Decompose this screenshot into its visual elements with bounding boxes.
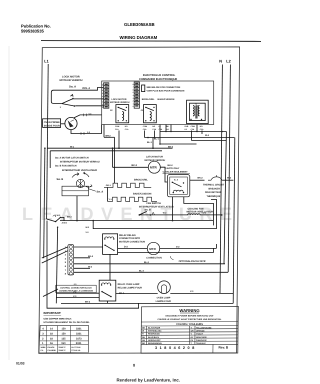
relay K1 bbox=[116, 105, 129, 123]
part number row bbox=[155, 346, 229, 350]
wire BL-1 row bbox=[160, 143, 197, 145]
wire sw.A to connector bbox=[74, 98, 104, 100]
svg-text:3321: 3321 bbox=[76, 333, 82, 336]
connector feed diagonals bbox=[42, 247, 68, 258]
wire drop to broil element bbox=[114, 137, 116, 183]
svg-text:OVEN LAMP: OVEN LAMP bbox=[157, 296, 171, 299]
svg-text:P-2: P-2 bbox=[87, 131, 90, 134]
svg-text:GLEB3058ASB: GLEB3058ASB bbox=[124, 22, 155, 27]
page edge scan line bbox=[8, 46, 10, 360]
relay K1 label bbox=[110, 98, 175, 104]
relay K3 double-line transformer bbox=[187, 100, 209, 123]
wire left rail 2 bbox=[44, 148, 45, 258]
svg-text:Sw. B FAN SWITCH: Sw. B FAN SWITCH bbox=[55, 165, 77, 168]
svg-text:BL-2: BL-2 bbox=[139, 270, 145, 273]
relay MTR connection box bbox=[103, 234, 118, 255]
svg-text:1: 1 bbox=[133, 102, 134, 105]
wire lock assembly drop left bbox=[172, 197, 174, 221]
svg-text:STYLE UL: STYLE UL bbox=[71, 349, 81, 352]
header rule bbox=[41, 40, 261, 43]
svg-text:4: 4 bbox=[102, 95, 103, 98]
svg-text:INTERRUPTEUR VENTILATEUR: INTERRUPTEUR VENTILATEUR bbox=[62, 169, 97, 172]
wire L2 rail bbox=[228, 65, 230, 273]
svg-text:Rendered by LeadVenture, Inc.: Rendered by LeadVenture, Inc. bbox=[117, 378, 181, 383]
svg-text:0: 0 bbox=[102, 106, 103, 109]
wire drop relay K1 COM bbox=[118, 131, 120, 149]
relay oven lamp bbox=[99, 280, 116, 301]
svg-text:THERMAL CIRCUIT: THERMAL CIRCUIT bbox=[203, 184, 225, 187]
cam base bbox=[62, 186, 89, 196]
fan switch row bbox=[139, 214, 222, 215]
cavity note bbox=[163, 164, 189, 174]
svg-text:2: 2 bbox=[102, 100, 103, 103]
wire N rail bbox=[220, 65, 222, 294]
latch motor label bbox=[132, 155, 166, 166]
relay K2 bbox=[144, 105, 157, 123]
border frame bbox=[39, 47, 240, 354]
important note bbox=[44, 311, 90, 324]
svg-text:N-1: N-1 bbox=[166, 128, 169, 131]
svg-text:CONNECTION: CONNECTION bbox=[146, 257, 162, 260]
svg-text:CONTROL CONNECTOR BLOCK: CONTROL CONNECTOR BLOCK bbox=[60, 286, 92, 289]
svg-text:WIRE: WIRE bbox=[41, 346, 47, 349]
wire bottom bk-2 bbox=[61, 302, 233, 304]
svg-text:CONNECTION MTR: CONNECTION MTR bbox=[119, 237, 140, 240]
oven lamp bbox=[158, 281, 171, 294]
svg-text:1: 1 bbox=[102, 103, 103, 106]
wire relay to mtr conn bbox=[118, 247, 148, 249]
svg-text:OR-1: OR-1 bbox=[106, 184, 112, 187]
wire lower fan row bbox=[60, 220, 213, 222]
svg-text:SEE BELOW FOR CONNECTION: SEE BELOW FOR CONNECTION bbox=[147, 86, 181, 89]
svg-text:VIOL-2: VIOL-2 bbox=[82, 87, 91, 90]
svg-text:IMPORTANT:: IMPORTANT: bbox=[44, 311, 62, 315]
svg-text:OVEN PROBE: OVEN PROBE bbox=[44, 121, 60, 124]
svg-text:MOTEUR VERROU: MOTEUR VERROU bbox=[110, 101, 130, 104]
svg-text:8: 8 bbox=[102, 84, 103, 87]
header: publication number bbox=[21, 22, 158, 40]
svg-text:Sw. A: Sw. A bbox=[97, 191, 104, 194]
svg-text:VOIR PLUS BAS POUR CONNEXION: VOIR PLUS BAS POUR CONNEXION bbox=[147, 89, 185, 92]
svg-text:PINK/ROSE: PINK/ROSE bbox=[196, 339, 207, 342]
svg-text:YELLOW/JAUNE: YELLOW/JAUNE bbox=[196, 327, 212, 330]
svg-text:DISJONCTEUR: DISJONCTEUR bbox=[205, 191, 222, 194]
cam rotary symbol bbox=[76, 179, 84, 187]
optional label bbox=[170, 256, 173, 259]
svg-text:8: 8 bbox=[133, 83, 134, 86]
wire BR-2 row bbox=[104, 136, 115, 138]
wire N return row bbox=[160, 131, 226, 133]
svg-text:CALIBRE: CALIBRE bbox=[47, 349, 56, 352]
wire W-1 row bbox=[48, 147, 173, 149]
svg-text:318046208: 318046208 bbox=[155, 346, 197, 350]
wires into oven lamp relay bbox=[56, 292, 99, 294]
wire viol-2 bbox=[92, 88, 103, 91]
wire door sw lower contact rail bbox=[56, 228, 57, 304]
svg-text:WIRING DIAGRAM: WIRING DIAGRAM bbox=[120, 35, 158, 40]
cooling fan text bbox=[187, 207, 214, 213]
svg-text:BROIL/GRIL: BROIL/GRIL bbox=[142, 98, 155, 101]
svg-text:BLACK/NOIR: BLACK/NOIR bbox=[148, 327, 161, 330]
wire mtr to lock assembly bbox=[160, 167, 167, 182]
svg-text:BK-2: BK-2 bbox=[85, 301, 91, 304]
svg-text:DISCONNECT POWER BEFORE SERVIC: DISCONNECT POWER BEFORE SERVICING UNIT bbox=[165, 315, 214, 318]
lock motor Sw.A labels bbox=[60, 76, 91, 91]
svg-text:BROIL/GRIL: BROIL/GRIL bbox=[134, 178, 148, 181]
svg-text:BREAKER: BREAKER bbox=[209, 187, 221, 190]
oven probe sensor bbox=[65, 117, 77, 129]
svg-text:INTERRUPTEUR MOTEUR VERROU: INTERRUPTEUR MOTEUR VERROU bbox=[60, 160, 100, 163]
svg-text:150: 150 bbox=[62, 328, 67, 331]
svg-text:3: 3 bbox=[102, 98, 103, 101]
svg-text:BK-2: BK-2 bbox=[88, 255, 94, 258]
svg-text:COMMANDE ELECTRONIQUE: COMMANDE ELECTRONIQUE bbox=[139, 78, 177, 81]
svg-text:BLUE/BLEU: BLUE/BLEU bbox=[148, 336, 160, 339]
svg-text:5: 5 bbox=[133, 91, 134, 94]
svg-text:THERMIQUE: THERMIQUE bbox=[207, 195, 221, 198]
svg-text:8: 8 bbox=[133, 364, 135, 368]
svg-text:3321: 3321 bbox=[76, 328, 82, 331]
svg-text:CAVALIER SEULEMENT: CAVALIER SEULEMENT bbox=[163, 171, 189, 174]
svg-text:LAMPE-FOUR: LAMPE-FOUR bbox=[156, 300, 172, 303]
connector strip J2 bbox=[102, 83, 113, 112]
wire drop BR-2 from strip J2 bbox=[103, 125, 105, 138]
svg-text:K3: K3 bbox=[185, 128, 187, 131]
svg-text:VIOLET: VIOLET bbox=[196, 333, 204, 336]
svg-text:ORANGE: ORANGE bbox=[196, 330, 205, 333]
wire gauge table bbox=[39, 326, 89, 353]
svg-text:6: 6 bbox=[102, 89, 103, 92]
svg-text:BL-1: BL-1 bbox=[147, 141, 153, 144]
wire drop to latch motor bbox=[112, 148, 114, 167]
svg-text:5995383535: 5995383535 bbox=[21, 29, 44, 34]
svg-text:CAVITE ONLY: CAVITE ONLY bbox=[165, 167, 180, 170]
wire drop relay K3 DLB bbox=[196, 125, 198, 132]
svg-text:INTERRUPTEUR VENT LATEUR: INTERRUPTEUR VENT LATEUR bbox=[139, 205, 174, 208]
svg-text:RELAY-RELAIS: RELAY-RELAIS bbox=[119, 234, 136, 237]
wire probe V-3 lead bbox=[74, 115, 102, 118]
svg-text:TEMP C: TEMP C bbox=[58, 349, 66, 352]
wire drop relay K3 NO bbox=[201, 131, 203, 135]
svg-text:V-3: V-3 bbox=[89, 112, 92, 115]
svg-text:COM: COM bbox=[191, 125, 196, 128]
Sw.B cam mechanism bbox=[57, 178, 104, 193]
svg-text:GREEN/VERT: GREEN/VERT bbox=[148, 339, 161, 342]
wire drop L1 pin bbox=[159, 125, 161, 145]
svg-text:COOLING FAN: COOLING FAN bbox=[188, 207, 204, 210]
wire door sw to fan row bbox=[61, 217, 64, 220]
wire relay to lamp bbox=[116, 292, 158, 294]
svg-text:TAN/HALE: TAN/HALE bbox=[196, 342, 206, 345]
svg-text:01/03: 01/03 bbox=[16, 362, 25, 366]
warning box bbox=[141, 306, 238, 353]
colors table bbox=[141, 321, 238, 323]
wire lock assembly right bbox=[190, 179, 205, 181]
cam arrows bbox=[72, 173, 79, 178]
connector block wires right bbox=[74, 246, 103, 248]
svg-text:MOTEUR VERROU: MOTEUR VERROU bbox=[60, 79, 83, 82]
wire L1 rail bbox=[47, 64, 49, 219]
lock motor switch Sw.A loop bbox=[51, 90, 92, 103]
wire relay drop bbox=[109, 254, 111, 280]
svg-text:OPTIONAL/FACULTATIF: OPTIONAL/FACULTATIF bbox=[179, 260, 207, 263]
door switch bbox=[55, 221, 56, 222]
control connector block bbox=[56, 245, 96, 293]
wire sw.A NC to connector bbox=[75, 105, 103, 107]
svg-text:BAKE/CUISSON: BAKE/CUISSON bbox=[133, 192, 152, 195]
svg-text:BAKE/CUISSON: BAKE/CUISSON bbox=[158, 98, 175, 101]
svg-text:3321: 3321 bbox=[76, 342, 82, 345]
svg-text:RED/ROUGE: RED/ROUGE bbox=[148, 333, 160, 336]
motor MTR connection bbox=[147, 242, 159, 254]
wire lock assembly drop right bbox=[184, 197, 214, 226]
latch motor MTR bbox=[148, 161, 160, 173]
svg-text:BROWN/BRUN: BROWN/BRUN bbox=[148, 342, 162, 345]
svg-text:GAUGE: GAUGE bbox=[47, 346, 55, 349]
svg-text:L2: L2 bbox=[226, 60, 230, 64]
svg-text:ELECTROLUX CONTROL: ELECTROLUX CONTROL bbox=[143, 74, 176, 77]
oven probe label bbox=[43, 119, 61, 128]
wire drop relay K2 COM bbox=[144, 131, 146, 138]
svg-text:FAN SWITCH: FAN SWITCH bbox=[147, 202, 162, 205]
svg-text:MTR: MTR bbox=[150, 166, 157, 170]
svg-text:2: 2 bbox=[133, 100, 134, 103]
svg-text:Sw. A: Sw. A bbox=[69, 86, 76, 89]
wire to latch motor bbox=[113, 166, 149, 168]
svg-text:BK-2: BK-2 bbox=[132, 164, 138, 167]
svg-text:MOTEUR VENT LATEUR: MOTEUR VENT LATEUR bbox=[187, 210, 214, 213]
wire cam to fan row bbox=[76, 196, 78, 221]
svg-text:RELAY OVEN LAMP: RELAY OVEN LAMP bbox=[118, 283, 140, 286]
svg-text:S- A: S- A bbox=[174, 179, 179, 182]
wire drop relay K2 NO bbox=[154, 131, 156, 138]
wire row gn bbox=[118, 252, 214, 254]
svg-text:COM: COM bbox=[143, 125, 148, 128]
svg-text:3173: 3173 bbox=[76, 338, 82, 341]
svg-text:MTR: MTR bbox=[149, 247, 156, 251]
svg-text:SONDE FOUR: SONDE FOUR bbox=[44, 125, 60, 128]
wire drop BK pin bbox=[165, 125, 167, 132]
wire lamp right V-3 bbox=[170, 292, 233, 294]
group outline door lock section bbox=[50, 150, 162, 152]
footer bbox=[16, 362, 180, 383]
svg-text:N: N bbox=[219, 60, 222, 64]
svg-text:4: 4 bbox=[133, 94, 134, 97]
svg-text:WARNING: WARNING bbox=[179, 308, 199, 313]
big loop wire upper bbox=[93, 199, 216, 228]
svg-text:7: 7 bbox=[102, 86, 103, 89]
wire probe to control bbox=[71, 125, 102, 134]
wire mtr conn right D-2 bbox=[160, 247, 217, 249]
latch switch text block bbox=[55, 156, 100, 172]
wire band labels bbox=[70, 134, 210, 148]
wire W-2 row bbox=[145, 137, 235, 139]
wire row to mtr bbox=[192, 140, 227, 142]
svg-text:Sw. B: Sw. B bbox=[145, 209, 152, 212]
svg-text:UTILISER SEULEMENT DU FIL DE C: UTILISER SEULEMENT DU FIL DE CUIVRE. bbox=[44, 321, 90, 324]
svg-text:A B D: A B D bbox=[62, 221, 68, 224]
svg-text:5: 5 bbox=[102, 92, 103, 95]
svg-text:COM: COM bbox=[115, 125, 120, 128]
svg-text:RELAIS LAMPE-FOUR: RELAIS LAMPE-FOUR bbox=[118, 287, 143, 290]
svg-text:Sw. B: Sw. B bbox=[57, 178, 64, 181]
svg-text:6: 6 bbox=[133, 88, 134, 91]
svg-text:COUPER LE COURANT AVANT D'EFFE: COUPER LE COURANT AVANT D'EFFECTUER UNE … bbox=[157, 318, 221, 321]
svg-text:W: W bbox=[142, 330, 144, 333]
svg-text:USE COPPER WIRE ONLY.: USE COPPER WIRE ONLY. bbox=[44, 317, 73, 320]
svg-text:COLORS / COULEURS: COLORS / COULEURS bbox=[176, 323, 203, 326]
svg-text:CONNECTEUR DE LA COMMANDE: CONNECTEUR DE LA COMMANDE bbox=[59, 289, 94, 292]
svg-text:GRAY/GRIS: GRAY/GRIS bbox=[196, 336, 207, 339]
svg-text:125: 125 bbox=[61, 338, 66, 341]
svg-text:TEMP C: TEMP C bbox=[58, 346, 66, 349]
svg-text:3: 3 bbox=[133, 97, 134, 100]
svg-text:7: 7 bbox=[133, 86, 134, 89]
svg-text:BK-2: BK-2 bbox=[168, 164, 174, 167]
svg-text:150: 150 bbox=[62, 333, 67, 336]
svg-text:MOTEUR CONNECTION: MOTEUR CONNECTION bbox=[119, 241, 145, 244]
svg-text:Sw. A MOTOR LATCH SWITCH: Sw. A MOTOR LATCH SWITCH bbox=[55, 156, 89, 159]
lock assembly solenoid bbox=[167, 175, 189, 197]
svg-text:BL-2: BL-2 bbox=[144, 261, 150, 264]
svg-text:Rev. B: Rev. B bbox=[219, 346, 229, 350]
svg-text:LOCK MOTOR: LOCK MOTOR bbox=[62, 76, 80, 79]
electronic control box bbox=[102, 81, 214, 125]
thermal breaker text bbox=[203, 184, 225, 198]
see below note bbox=[142, 85, 145, 92]
svg-text:BK-2: BK-2 bbox=[198, 176, 204, 179]
svg-text:LATCH MOTOR: LATCH MOTOR bbox=[146, 155, 163, 158]
switch A contacts bbox=[72, 98, 74, 100]
svg-text:0: 0 bbox=[133, 105, 134, 108]
svg-text:LOCK MOTOR: LOCK MOTOR bbox=[112, 98, 127, 101]
svg-text:L1: L1 bbox=[44, 60, 48, 64]
fan switch text bbox=[139, 202, 174, 212]
wire drop relay K3 COM bbox=[191, 131, 193, 141]
svg-text:UL STYLE: UL STYLE bbox=[71, 346, 81, 349]
connector strip J1 bbox=[133, 82, 144, 112]
svg-text:WHITE/BLANC: WHITE/BLANC bbox=[148, 330, 162, 333]
wire drop N pin bbox=[170, 125, 172, 132]
svg-text:150: 150 bbox=[61, 342, 66, 345]
relay pin labels bbox=[115, 125, 204, 131]
